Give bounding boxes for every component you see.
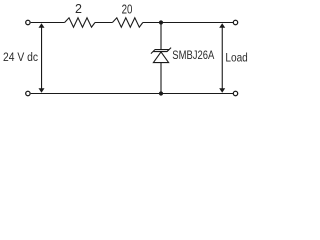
wire top-right segment — [143, 22, 233, 24]
load arrow head down — [219, 88, 225, 93]
wire bottom — [31, 93, 233, 95]
svg-text:24 V dc: 24 V dc — [3, 50, 38, 64]
terminal bottom-left — [26, 91, 30, 95]
wire top-left segment — [31, 22, 65, 24]
resistor R1 (2 ohm) — [65, 18, 95, 27]
terminal bottom-right — [233, 91, 237, 95]
wire zener branch upper — [160, 23, 162, 50]
wire zener branch lower — [160, 63, 162, 94]
junction node bottom — [159, 91, 163, 95]
svg-text:SMBJ26A: SMBJ26A — [172, 49, 214, 62]
svg-text:20: 20 — [122, 2, 133, 16]
diode D1 SMBJ26A cathode bar — [151, 48, 171, 54]
terminal top-left — [26, 20, 30, 24]
voltage arrow head up — [39, 23, 45, 28]
voltage arrow head down — [39, 88, 45, 93]
wire between resistors — [95, 22, 112, 24]
terminal top-right — [233, 20, 237, 24]
svg-text:Load: Load — [225, 50, 247, 64]
voltage arrow 24V shaft — [41, 26, 42, 90]
load arrow head up — [219, 23, 225, 28]
junction node top — [159, 20, 163, 24]
resistor R2 (20 ohm) — [112, 18, 142, 27]
diode D1 triangle — [153, 52, 168, 63]
svg-text:2: 2 — [75, 2, 82, 16]
load arrow shaft — [222, 26, 223, 90]
